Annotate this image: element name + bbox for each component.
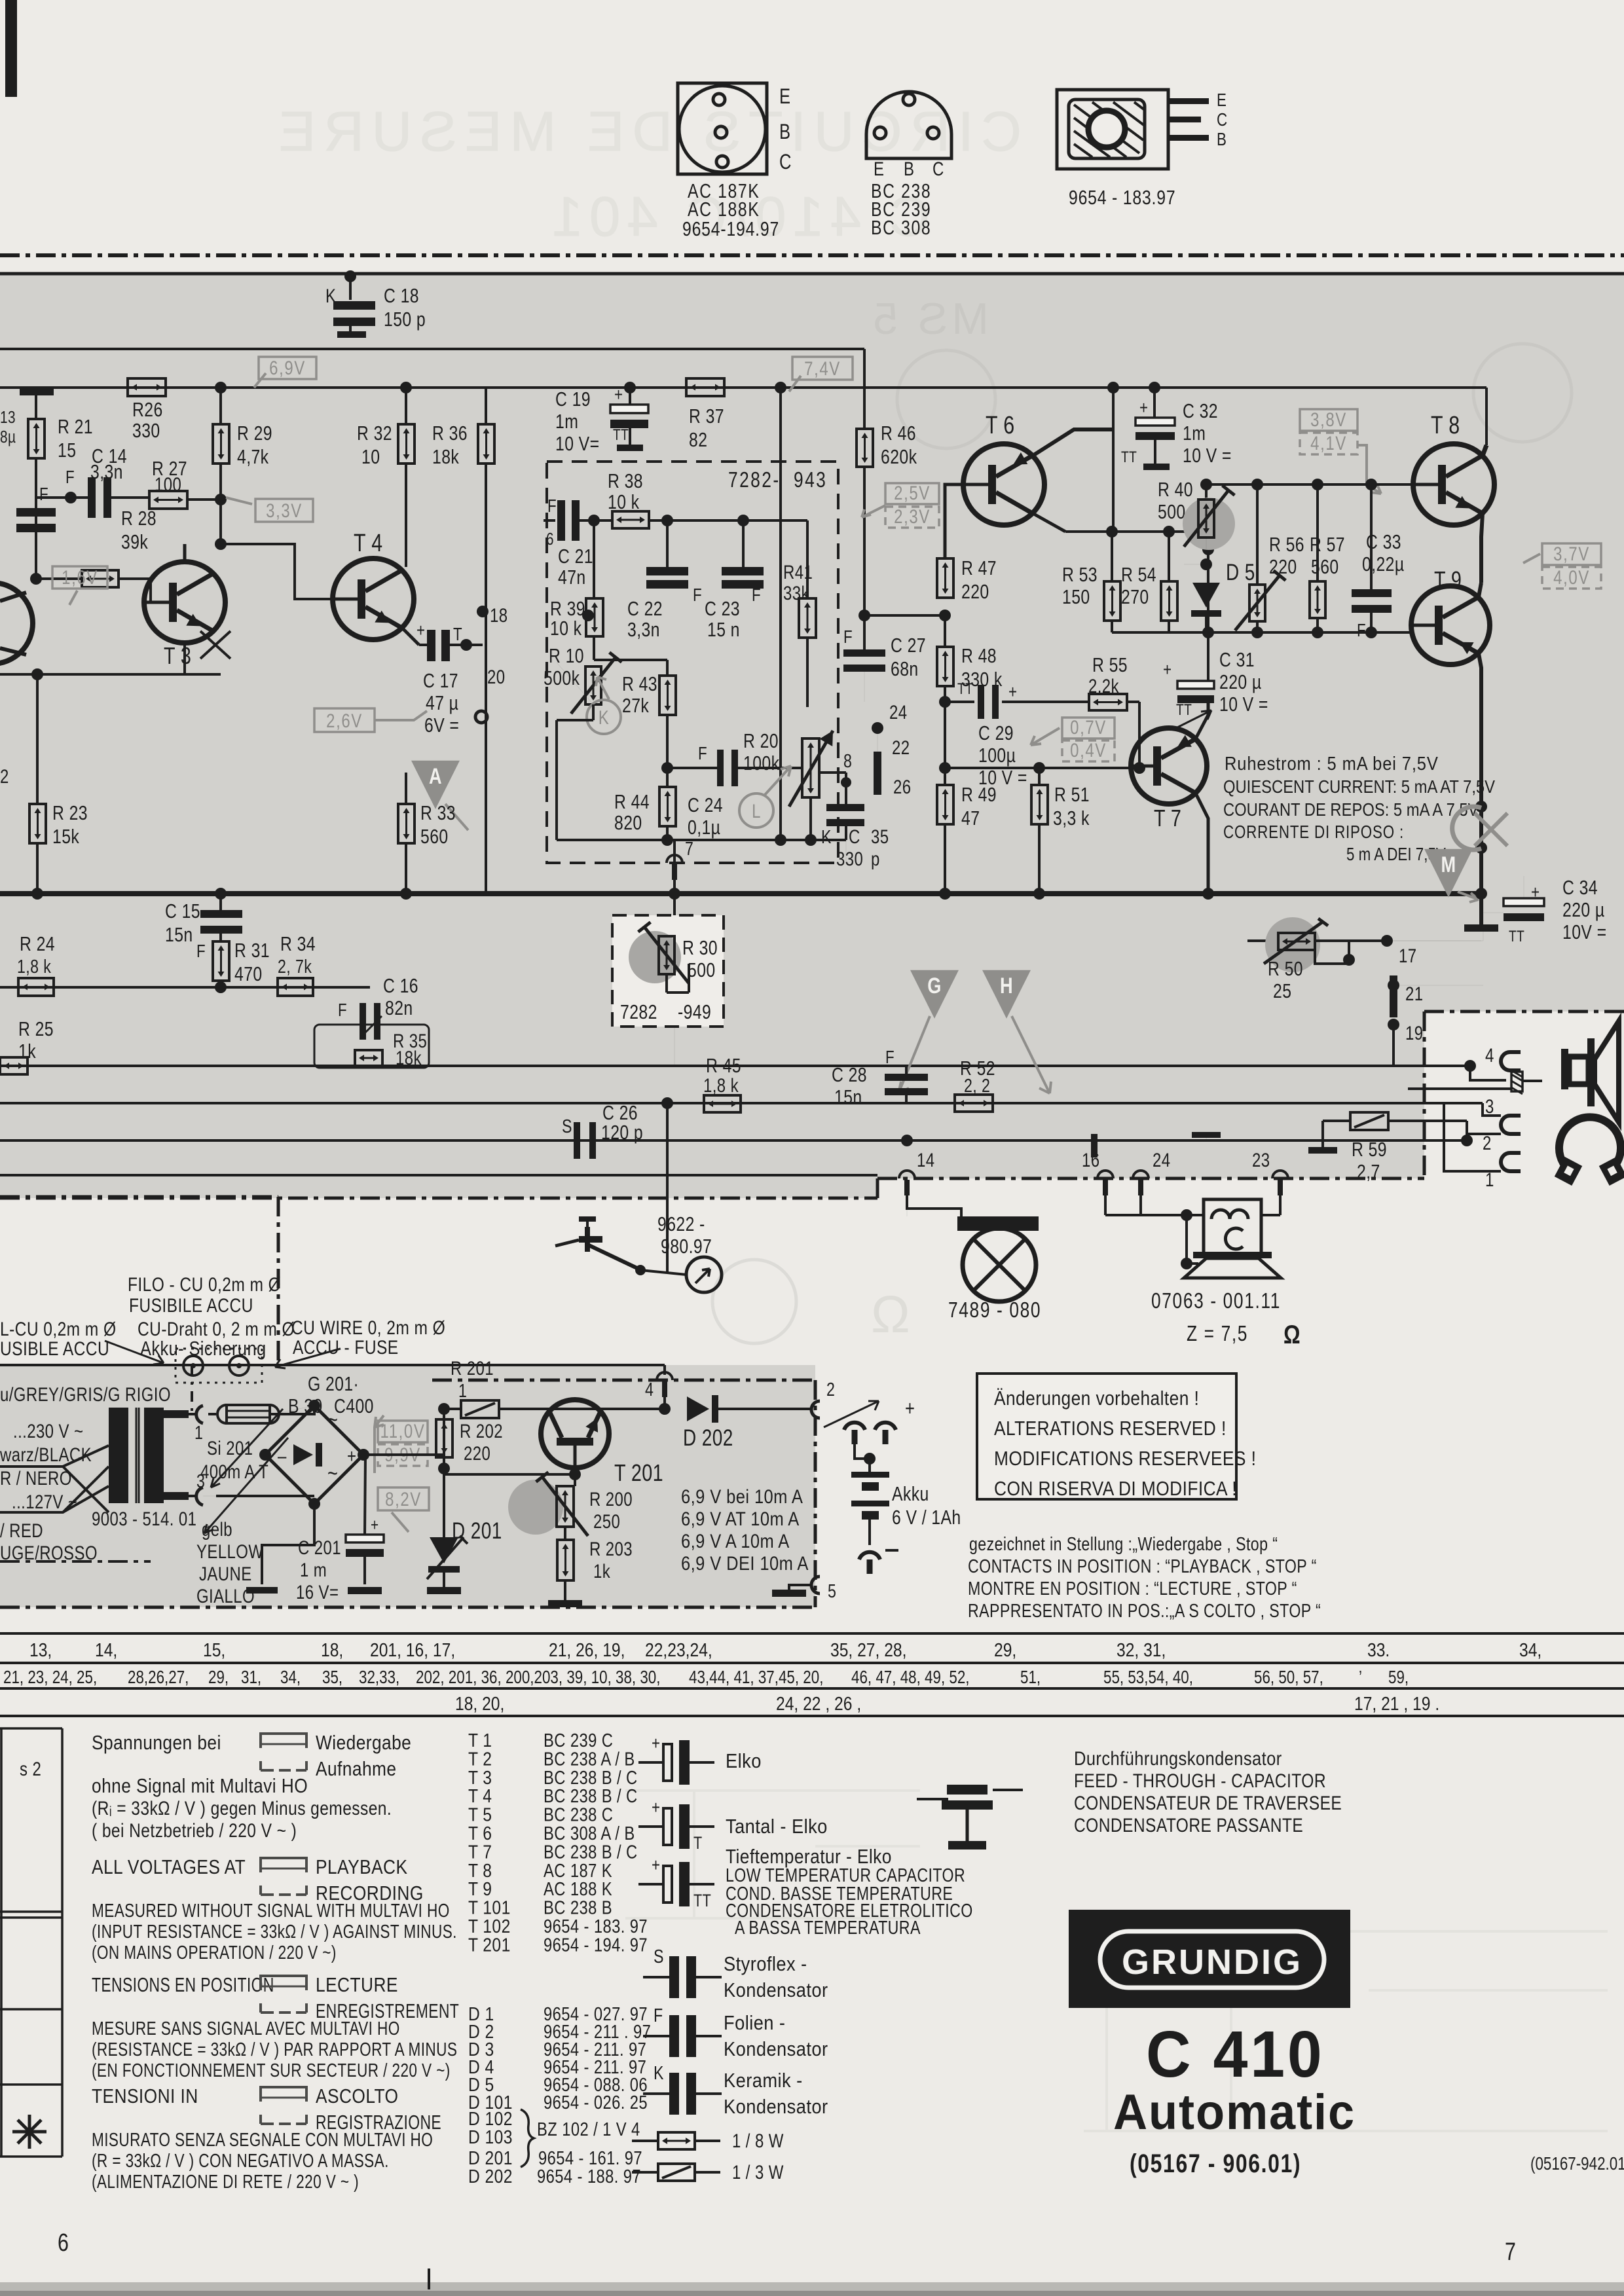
svg-text:14: 14 bbox=[917, 1148, 934, 1171]
svg-text:5: 5 bbox=[828, 1580, 836, 1601]
svg-text:K: K bbox=[599, 706, 609, 728]
svg-text:MONTRE EN POSITION : “LECTUR: MONTRE EN POSITION : “LECTURE , STOP “ bbox=[968, 1577, 1297, 1599]
svg-text:6,9V: 6,9V bbox=[269, 356, 306, 378]
svg-text:2, 2: 2, 2 bbox=[964, 1074, 990, 1096]
svg-text:B: B bbox=[779, 120, 790, 143]
svg-text:19: 19 bbox=[1405, 1021, 1423, 1044]
svg-text:2,7: 2,7 bbox=[1357, 1160, 1380, 1182]
svg-text:500: 500 bbox=[1158, 500, 1186, 522]
svg-text:220 µ: 220 µ bbox=[1562, 898, 1605, 920]
svg-text:ALTERATIONS RESERVED !: ALTERATIONS RESERVED ! bbox=[994, 1417, 1227, 1440]
svg-text:500k: 500k bbox=[544, 666, 580, 689]
svg-text:R 43: R 43 bbox=[622, 672, 657, 695]
svg-text:Akku: Akku bbox=[892, 1482, 929, 1504]
svg-text:15,: 15, bbox=[203, 1639, 225, 1660]
svg-text:13,: 13, bbox=[29, 1639, 52, 1660]
svg-text:Kondensator: Kondensator bbox=[724, 2096, 828, 2118]
svg-text:330: 330 bbox=[132, 419, 160, 441]
svg-text:9654 - 026. 25: 9654 - 026. 25 bbox=[544, 2092, 648, 2113]
svg-text:CONTACTS IN POSITION : “PLAY: CONTACTS IN POSITION : “PLAYBACK , STOP … bbox=[968, 1555, 1317, 1576]
svg-text:31,: 31, bbox=[241, 1667, 261, 1688]
svg-text:MODIFICATIONS RESERVEES !: MODIFICATIONS RESERVEES ! bbox=[994, 1448, 1256, 1470]
svg-text:R 44: R 44 bbox=[614, 790, 650, 812]
svg-text:(INPUT RESISTANCE = 33kΩ / V: (INPUT RESISTANCE = 33kΩ / V ) AGAINST M… bbox=[92, 1920, 457, 1942]
svg-text:–: – bbox=[278, 1444, 287, 1467]
svg-text:T 4: T 4 bbox=[354, 530, 383, 557]
svg-text:u/GREY/GRIS/G RIGIO: u/GREY/GRIS/G RIGIO bbox=[0, 1383, 171, 1405]
svg-text:(ALIMENTAZIONE DI RETE /: (ALIMENTAZIONE DI RETE / 220 V ~ ) bbox=[92, 2170, 359, 2192]
svg-text:07063 - 001.11: 07063 - 001.11 bbox=[1151, 1289, 1281, 1313]
svg-text:51,: 51, bbox=[1020, 1667, 1041, 1688]
svg-text:2,3V: 2,3V bbox=[894, 505, 931, 527]
svg-text:USIBLE ACCU: USIBLE ACCU bbox=[0, 1338, 109, 1360]
svg-text:C 19: C 19 bbox=[555, 388, 591, 410]
svg-text:~: ~ bbox=[327, 1407, 338, 1432]
svg-text:620k: 620k bbox=[881, 445, 917, 467]
svg-text:1 m: 1 m bbox=[300, 1558, 327, 1580]
svg-text:H: H bbox=[1000, 973, 1013, 998]
svg-text:39k: 39k bbox=[121, 530, 149, 553]
svg-text:C 27: C 27 bbox=[891, 634, 926, 656]
svg-text:59,: 59, bbox=[1388, 1667, 1409, 1688]
svg-text:T 201: T 201 bbox=[468, 1935, 511, 1956]
svg-text:+: + bbox=[416, 621, 425, 641]
svg-text:R 10: R 10 bbox=[549, 644, 584, 666]
svg-text:+: + bbox=[652, 1734, 660, 1754]
svg-text:C: C bbox=[932, 157, 944, 179]
svg-text:C 201: C 201 bbox=[298, 1536, 341, 1558]
svg-text:R 203: R 203 bbox=[589, 1537, 633, 1559]
svg-text:32,33,: 32,33, bbox=[359, 1667, 399, 1688]
svg-text:500: 500 bbox=[688, 958, 716, 981]
svg-text:35: 35 bbox=[871, 825, 889, 847]
svg-text:C 24: C 24 bbox=[688, 793, 723, 816]
svg-text:201, 16, 17,: 201, 16, 17, bbox=[370, 1639, 455, 1660]
svg-text:9654 - 188. 97: 9654 - 188. 97 bbox=[537, 2166, 641, 2187]
svg-text:A BASSA TEMPERATURA: A BASSA TEMPERATURA bbox=[735, 1916, 921, 1938]
svg-text:18,: 18, bbox=[321, 1639, 343, 1660]
svg-text:B: B bbox=[904, 157, 914, 179]
svg-text:15n: 15n bbox=[834, 1085, 862, 1108]
svg-text:150 p: 150 p bbox=[384, 308, 426, 330]
svg-text:17, 21 , 19 .: 17, 21 , 19 . bbox=[1354, 1693, 1439, 1714]
svg-text:s 2: s 2 bbox=[20, 1757, 41, 1779]
svg-text:6: 6 bbox=[58, 2229, 69, 2257]
svg-text:9622 -: 9622 - bbox=[657, 1212, 705, 1235]
svg-text:1m: 1m bbox=[555, 410, 578, 432]
svg-text:24, 22 , 26 ,: 24, 22 , 26 , bbox=[776, 1693, 861, 1714]
svg-text:13: 13 bbox=[0, 408, 16, 427]
svg-text:D 202: D 202 bbox=[468, 2166, 513, 2187]
svg-text:25: 25 bbox=[1273, 979, 1291, 1002]
svg-text:10 V =: 10 V = bbox=[1219, 693, 1268, 715]
svg-text:0,4V: 0,4V bbox=[1070, 738, 1107, 761]
svg-text:47n: 47n bbox=[558, 566, 586, 588]
svg-text:Styroflex -: Styroflex - bbox=[724, 1953, 807, 1975]
svg-text:470: 470 bbox=[234, 962, 263, 985]
svg-text:202, 201, 36, 200,203, 39, 10,: 202, 201, 36, 200,203, 39, 10, 38, 30, bbox=[416, 1667, 660, 1688]
svg-text:GIALLO: GIALLO bbox=[196, 1584, 255, 1607]
svg-text:220: 220 bbox=[464, 1442, 490, 1464]
svg-text:C 410: C 410 bbox=[1146, 2018, 1324, 2091]
svg-text:C 18: C 18 bbox=[384, 284, 419, 306]
svg-text:18k: 18k bbox=[432, 445, 460, 467]
svg-text:+: + bbox=[652, 1798, 660, 1818]
svg-text:220 µ: 220 µ bbox=[1219, 670, 1262, 693]
svg-text:Elko: Elko bbox=[726, 1750, 762, 1772]
svg-text:(05167-942.01: (05167-942.01 bbox=[1530, 2154, 1624, 2174]
svg-text:-949: -949 bbox=[678, 1000, 711, 1023]
svg-text:RAPPRESENTATO IN POS.:„A S C: RAPPRESENTATO IN POS.:„A S COLTO , STOP … bbox=[968, 1599, 1321, 1621]
svg-text:820: 820 bbox=[614, 811, 642, 833]
svg-text:2: 2 bbox=[0, 765, 9, 787]
svg-text:(RESISTANCE = 33kΩ / V ) PAR: (RESISTANCE = 33kΩ / V ) PAR RAPPORT A M… bbox=[92, 2038, 457, 2060]
svg-text:400m A T: 400m A T bbox=[200, 1460, 268, 1482]
svg-text:16 V=: 16 V= bbox=[296, 1580, 339, 1603]
svg-text:1,6V: 1,6V bbox=[62, 566, 98, 588]
svg-text:Kondensator: Kondensator bbox=[724, 1979, 828, 2001]
svg-text:32, 31,: 32, 31, bbox=[1116, 1639, 1166, 1660]
svg-text:11,0V: 11,0V bbox=[380, 1419, 426, 1442]
svg-text:E: E bbox=[1217, 90, 1227, 111]
svg-text:G 201·: G 201· bbox=[308, 1372, 359, 1394]
svg-text:9654-194.97: 9654-194.97 bbox=[682, 217, 779, 240]
svg-text:R 20: R 20 bbox=[743, 729, 779, 752]
svg-text:+: + bbox=[905, 1397, 915, 1420]
svg-text:Kondensator: Kondensator bbox=[724, 2038, 828, 2060]
svg-text:6,9 V A 10m A: 6,9 V A 10m A bbox=[681, 1530, 790, 1552]
svg-text:S: S bbox=[654, 1945, 664, 1967]
svg-text:CON RISERVA DI MODIFICA !: CON RISERVA DI MODIFICA ! bbox=[994, 1478, 1237, 1500]
svg-text:R 30: R 30 bbox=[682, 936, 718, 958]
svg-text:6,9 V DEI 10m A: 6,9 V DEI 10m A bbox=[681, 1552, 809, 1574]
svg-text:A: A bbox=[429, 763, 442, 789]
svg-text:3,3 k: 3,3 k bbox=[1053, 807, 1090, 829]
svg-text:R / NERO: R / NERO bbox=[0, 1467, 72, 1489]
svg-text:C 16: C 16 bbox=[383, 974, 418, 996]
svg-text:’: ’ bbox=[1359, 1667, 1362, 1688]
svg-text:C 33: C 33 bbox=[1366, 530, 1401, 553]
svg-text:T: T bbox=[453, 625, 462, 645]
svg-text:Z = 7,5: Z = 7,5 bbox=[1187, 1322, 1248, 1345]
svg-text:M: M bbox=[1441, 852, 1456, 877]
svg-text:7282-: 7282- bbox=[728, 468, 781, 492]
svg-text:+: + bbox=[1139, 398, 1148, 418]
svg-text:Änderungen vorbehalten !: Änderungen vorbehalten ! bbox=[994, 1387, 1199, 1410]
svg-text:100µ: 100µ bbox=[978, 744, 1016, 766]
svg-text:3,3n: 3,3n bbox=[627, 618, 660, 640]
svg-text:10: 10 bbox=[361, 445, 380, 467]
svg-text:CU WIRE 0, 2m m Ø: CU WIRE 0, 2m m Ø bbox=[291, 1317, 445, 1339]
svg-text:15n: 15n bbox=[165, 923, 193, 945]
svg-text:COURANT DE REPOS: 5 mA A 7: COURANT DE REPOS: 5 mA A 7,5V bbox=[1223, 799, 1479, 820]
svg-text:K: K bbox=[821, 826, 832, 847]
svg-text:Keramik -: Keramik - bbox=[724, 2069, 803, 2092]
svg-text:T 6: T 6 bbox=[986, 412, 1015, 439]
svg-text:Tantal - Elko: Tantal - Elko bbox=[726, 1815, 828, 1838]
svg-text:21, 26, 19,: 21, 26, 19, bbox=[549, 1639, 625, 1660]
svg-text:L: L bbox=[752, 799, 761, 822]
svg-text:6V =: 6V = bbox=[424, 714, 459, 736]
svg-text:T 7: T 7 bbox=[1154, 805, 1181, 831]
svg-text:ACCU - FUSE: ACCU - FUSE bbox=[293, 1336, 399, 1358]
svg-text:15k: 15k bbox=[52, 825, 80, 847]
svg-text:~: ~ bbox=[327, 1461, 338, 1486]
svg-text:R 28: R 28 bbox=[121, 507, 157, 529]
svg-text:22,23,24,: 22,23,24, bbox=[645, 1639, 712, 1660]
svg-text:Ω: Ω bbox=[871, 1285, 910, 1343]
svg-text:9654 - 183.97: 9654 - 183.97 bbox=[1069, 186, 1175, 208]
svg-text:F: F bbox=[885, 1048, 895, 1068]
svg-text:2,5V: 2,5V bbox=[894, 481, 931, 503]
svg-text:1: 1 bbox=[458, 1379, 467, 1401]
svg-text:TT: TT bbox=[1509, 927, 1524, 945]
svg-text:TT: TT bbox=[1176, 701, 1192, 719]
svg-text:4,0V: 4,0V bbox=[1553, 566, 1590, 588]
svg-text:560: 560 bbox=[1311, 555, 1339, 577]
svg-text:220: 220 bbox=[961, 580, 989, 602]
svg-text:E: E bbox=[874, 157, 884, 179]
svg-text:F: F bbox=[752, 585, 761, 606]
svg-text:Automatic: Automatic bbox=[1113, 2084, 1356, 2140]
svg-text:p: p bbox=[871, 847, 880, 869]
svg-text:9654 - 194. 97: 9654 - 194. 97 bbox=[544, 1934, 648, 1956]
svg-text:15 n: 15 n bbox=[707, 618, 740, 640]
svg-text:F: F bbox=[654, 2004, 663, 2026]
svg-text:270: 270 bbox=[1121, 585, 1149, 608]
svg-text:29,: 29, bbox=[994, 1639, 1016, 1660]
svg-text:+: + bbox=[652, 1855, 660, 1876]
svg-text:1 / 3 W: 1 / 3 W bbox=[732, 2160, 784, 2183]
svg-text:82n: 82n bbox=[385, 996, 413, 1019]
svg-text:(R = 33kΩ / V ) CON NEGAT: (R = 33kΩ / V ) CON NEGATIVO A MASSA. bbox=[92, 2149, 389, 2171]
svg-text:6: 6 bbox=[546, 530, 554, 549]
svg-text:/ RED: / RED bbox=[0, 1519, 43, 1541]
svg-text:R 46: R 46 bbox=[881, 422, 916, 444]
svg-text:18, 20,: 18, 20, bbox=[455, 1693, 504, 1714]
svg-text:0,22µ: 0,22µ bbox=[1362, 553, 1405, 575]
svg-text:2,6V: 2,6V bbox=[326, 709, 363, 731]
svg-text:29,: 29, bbox=[208, 1667, 229, 1688]
svg-text:C 28: C 28 bbox=[832, 1063, 867, 1085]
svg-text:R 200: R 200 bbox=[589, 1487, 633, 1510]
svg-text:34,: 34, bbox=[1519, 1639, 1541, 1660]
svg-text:46, 47, 48, 49, 52,: 46, 47, 48, 49, 52, bbox=[851, 1667, 970, 1688]
svg-text:220: 220 bbox=[1269, 555, 1297, 577]
svg-text:250: 250 bbox=[593, 1510, 620, 1532]
svg-text:BZ 102 / 1 V 4: BZ 102 / 1 V 4 bbox=[537, 2119, 640, 2140]
svg-text:D 5: D 5 bbox=[1226, 559, 1255, 585]
svg-text:T 3: T 3 bbox=[164, 642, 191, 669]
svg-text:JAUNE: JAUNE bbox=[199, 1562, 252, 1584]
svg-text:R 47: R 47 bbox=[961, 556, 997, 579]
svg-text:7282: 7282 bbox=[620, 1000, 657, 1023]
svg-text:18k: 18k bbox=[396, 1046, 422, 1068]
svg-text:8,2V: 8,2V bbox=[385, 1487, 422, 1510]
svg-text:24: 24 bbox=[889, 701, 907, 723]
svg-text:ALL VOLTAGES AT: ALL VOLTAGES AT bbox=[92, 1856, 246, 1878]
svg-text:560: 560 bbox=[420, 825, 449, 847]
svg-text:43,44, 41, 37,45, 20,: 43,44, 41, 37,45, 20, bbox=[689, 1667, 823, 1688]
svg-text:GRUNDIG: GRUNDIG bbox=[1122, 1942, 1302, 1982]
svg-text:C: C bbox=[849, 825, 860, 847]
svg-text:7,4V: 7,4V bbox=[804, 357, 841, 379]
svg-text:F: F bbox=[65, 467, 75, 488]
svg-text:1 / 8 W: 1 / 8 W bbox=[732, 2129, 784, 2151]
svg-text:Spannungen bei: Spannungen bei bbox=[92, 1732, 221, 1754]
svg-text:...230 V ~: ...230 V ~ bbox=[13, 1419, 83, 1442]
svg-text:CORRENTE DI RIPOSO :: CORRENTE DI RIPOSO : bbox=[1223, 822, 1404, 843]
svg-text:10V =: 10V = bbox=[1562, 920, 1606, 943]
svg-text:150: 150 bbox=[1062, 585, 1090, 608]
svg-text:F: F bbox=[338, 1000, 347, 1021]
svg-text:QUIESCENT CURRENT: 5 mA AT: QUIESCENT CURRENT: 5 mA AT 7,5V bbox=[1223, 776, 1496, 797]
svg-text:10 k: 10 k bbox=[550, 617, 582, 639]
svg-text:C: C bbox=[779, 151, 792, 173]
svg-text:Wiedergabe: Wiedergabe bbox=[316, 1732, 411, 1754]
svg-text:MESURE SANS SIGNAL AVEC MU: MESURE SANS SIGNAL AVEC MULTAVI HO bbox=[92, 2017, 400, 2039]
svg-text:120 p: 120 p bbox=[601, 1121, 643, 1143]
svg-text:26: 26 bbox=[893, 775, 911, 797]
svg-text:C 32: C 32 bbox=[1183, 399, 1218, 422]
svg-text:0,7V: 0,7V bbox=[1070, 716, 1107, 738]
svg-text:+: + bbox=[347, 1444, 356, 1467]
svg-text:6,9 V bei 10m A: 6,9 V bei 10m A bbox=[681, 1485, 803, 1507]
svg-text:R 34: R 34 bbox=[280, 932, 316, 955]
svg-text:FEED - THROUGH - CAPACITOR: FEED - THROUGH - CAPACITOR bbox=[1074, 1770, 1326, 1792]
svg-text:27k: 27k bbox=[622, 694, 650, 716]
svg-text:F: F bbox=[547, 496, 557, 517]
svg-text:22: 22 bbox=[892, 736, 910, 758]
svg-text:2, 7k: 2, 7k bbox=[278, 955, 312, 977]
svg-text:E: E bbox=[779, 85, 790, 108]
svg-text:D 103: D 103 bbox=[468, 2126, 513, 2147]
svg-text:ASCOLTO: ASCOLTO bbox=[316, 2085, 398, 2107]
svg-text:TT: TT bbox=[957, 680, 973, 698]
svg-text:R 57: R 57 bbox=[1310, 533, 1345, 555]
svg-text:R41: R41 bbox=[783, 560, 813, 583]
svg-text:35,: 35, bbox=[322, 1667, 342, 1688]
svg-text:4,1V: 4,1V bbox=[1310, 431, 1347, 454]
svg-text:3,3V: 3,3V bbox=[266, 499, 303, 521]
svg-text:TT: TT bbox=[1121, 448, 1137, 466]
svg-text:R 31: R 31 bbox=[234, 939, 270, 961]
svg-text:T 201: T 201 bbox=[614, 1459, 663, 1486]
svg-text:F: F bbox=[843, 627, 853, 647]
svg-text:4: 4 bbox=[645, 1378, 654, 1400]
svg-text:8µ: 8µ bbox=[0, 428, 16, 446]
svg-text:R 59: R 59 bbox=[1352, 1138, 1387, 1160]
svg-text:3,7V: 3,7V bbox=[1553, 542, 1590, 564]
svg-text:(EN FONCTIONNEMENT SUR SECTE: (EN FONCTIONNEMENT SUR SECTEUR / 220 V ~… bbox=[92, 2059, 451, 2081]
svg-text:(Rᵢ = 33kΩ / V ) gegen Minus: (Rᵢ = 33kΩ / V ) gegen Minus gemessen. bbox=[92, 1797, 392, 1819]
svg-text:3,3n: 3,3n bbox=[90, 460, 123, 483]
svg-text:14,: 14, bbox=[95, 1639, 117, 1660]
svg-text:R 37: R 37 bbox=[689, 405, 724, 427]
svg-text:Si 201: Si 201 bbox=[207, 1436, 253, 1459]
svg-text:34,: 34, bbox=[280, 1667, 301, 1688]
svg-text:R 38: R 38 bbox=[608, 469, 643, 492]
svg-text:G: G bbox=[927, 973, 942, 998]
svg-text:55, 53,54, 40,: 55, 53,54, 40, bbox=[1103, 1667, 1193, 1688]
svg-text:100k: 100k bbox=[743, 752, 780, 774]
svg-text:LECTURE: LECTURE bbox=[316, 1974, 398, 1996]
svg-text:1,8 k: 1,8 k bbox=[703, 1074, 739, 1096]
svg-text:56, 50, 57,: 56, 50, 57, bbox=[1254, 1667, 1323, 1688]
svg-text:R 53: R 53 bbox=[1062, 563, 1098, 585]
svg-text:47: 47 bbox=[961, 807, 980, 829]
svg-text:CONDENSATORE PASSANTE: CONDENSATORE PASSANTE bbox=[1074, 1814, 1303, 1836]
svg-text:68n: 68n bbox=[891, 657, 919, 680]
svg-text:PLAYBACK: PLAYBACK bbox=[316, 1856, 407, 1878]
svg-text:4: 4 bbox=[1485, 1044, 1494, 1066]
svg-text:1k: 1k bbox=[593, 1559, 610, 1582]
svg-text:C: C bbox=[1217, 110, 1228, 130]
svg-text:R 202: R 202 bbox=[460, 1419, 503, 1442]
svg-text:18: 18 bbox=[490, 604, 507, 626]
svg-text:FILO - CU 0,2m m Ø: FILO - CU 0,2m m Ø bbox=[128, 1273, 281, 1296]
svg-text:1m: 1m bbox=[1183, 422, 1206, 444]
svg-text:Ruhestrom : 5 mA bei 7,5V: Ruhestrom : 5 mA bei 7,5V bbox=[1225, 752, 1439, 774]
svg-text:+: + bbox=[614, 385, 623, 405]
svg-text:K: K bbox=[654, 2062, 664, 2083]
svg-text:R 55: R 55 bbox=[1092, 653, 1128, 676]
svg-text:(05167 - 906.01): (05167 - 906.01) bbox=[1130, 2149, 1301, 2178]
svg-text:R 49: R 49 bbox=[961, 783, 997, 805]
svg-text:(ON MAINS OPERATION / 220: (ON MAINS OPERATION / 220 V ~) bbox=[92, 1941, 337, 1963]
svg-text:YELLOW: YELLOW bbox=[196, 1540, 263, 1562]
svg-text:( bei Netzbetrieb / 220 V ~: ( bei Netzbetrieb / 220 V ~ ) bbox=[92, 1819, 297, 1842]
svg-text:7489 - 080: 7489 - 080 bbox=[948, 1298, 1041, 1322]
svg-text:7: 7 bbox=[685, 837, 693, 859]
svg-text:1,8 k: 1,8 k bbox=[17, 955, 52, 977]
svg-text:F: F bbox=[39, 484, 48, 505]
svg-text:3: 3 bbox=[1485, 1095, 1494, 1117]
svg-text:33.: 33. bbox=[1367, 1639, 1390, 1660]
svg-text:C 15: C 15 bbox=[165, 900, 200, 922]
svg-text:24: 24 bbox=[1153, 1148, 1170, 1171]
svg-text:Ω: Ω bbox=[1283, 1320, 1301, 1349]
svg-text:+: + bbox=[371, 1516, 379, 1535]
svg-text:Akku- Sicherung: Akku- Sicherung bbox=[140, 1338, 267, 1360]
svg-text:R 23: R 23 bbox=[52, 801, 88, 824]
svg-text:T 8: T 8 bbox=[1431, 412, 1460, 439]
svg-text:0,1µ: 0,1µ bbox=[688, 816, 720, 838]
svg-text:R26: R26 bbox=[132, 398, 163, 420]
svg-text:R 21: R 21 bbox=[58, 415, 93, 437]
svg-text:943: 943 bbox=[794, 468, 827, 492]
svg-text:warz/BLACK: warz/BLACK bbox=[0, 1443, 92, 1465]
svg-text:R 40: R 40 bbox=[1158, 478, 1193, 500]
svg-text:35, 27, 28,: 35, 27, 28, bbox=[830, 1639, 906, 1660]
svg-text:S: S bbox=[562, 1115, 572, 1137]
svg-text:BC 308: BC 308 bbox=[871, 216, 931, 238]
svg-text:Aufnahme: Aufnahme bbox=[316, 1758, 396, 1780]
svg-text:C 17: C 17 bbox=[423, 669, 458, 691]
svg-text:gezeichnet in Stellung :„Wie: gezeichnet in Stellung :„Wiedergabe , St… bbox=[969, 1533, 1278, 1554]
svg-text:10 V=: 10 V= bbox=[555, 432, 599, 454]
svg-text:R 24: R 24 bbox=[20, 932, 55, 955]
svg-text:CIRCUITS DE MESURE: CIRCUITS DE MESURE bbox=[271, 101, 1022, 163]
svg-text:82: 82 bbox=[689, 428, 707, 450]
svg-text:L-CU 0,2m m Ø: L-CU 0,2m m Ø bbox=[0, 1318, 116, 1340]
svg-text:R 48: R 48 bbox=[961, 644, 997, 666]
svg-text:33k: 33k bbox=[783, 581, 809, 604]
svg-text:17: 17 bbox=[1399, 944, 1416, 966]
svg-text:+: + bbox=[1008, 682, 1017, 702]
svg-text:CU-Draht 0, 2 m m Ø: CU-Draht 0, 2 m m Ø bbox=[138, 1318, 295, 1340]
svg-text:20: 20 bbox=[487, 665, 505, 687]
